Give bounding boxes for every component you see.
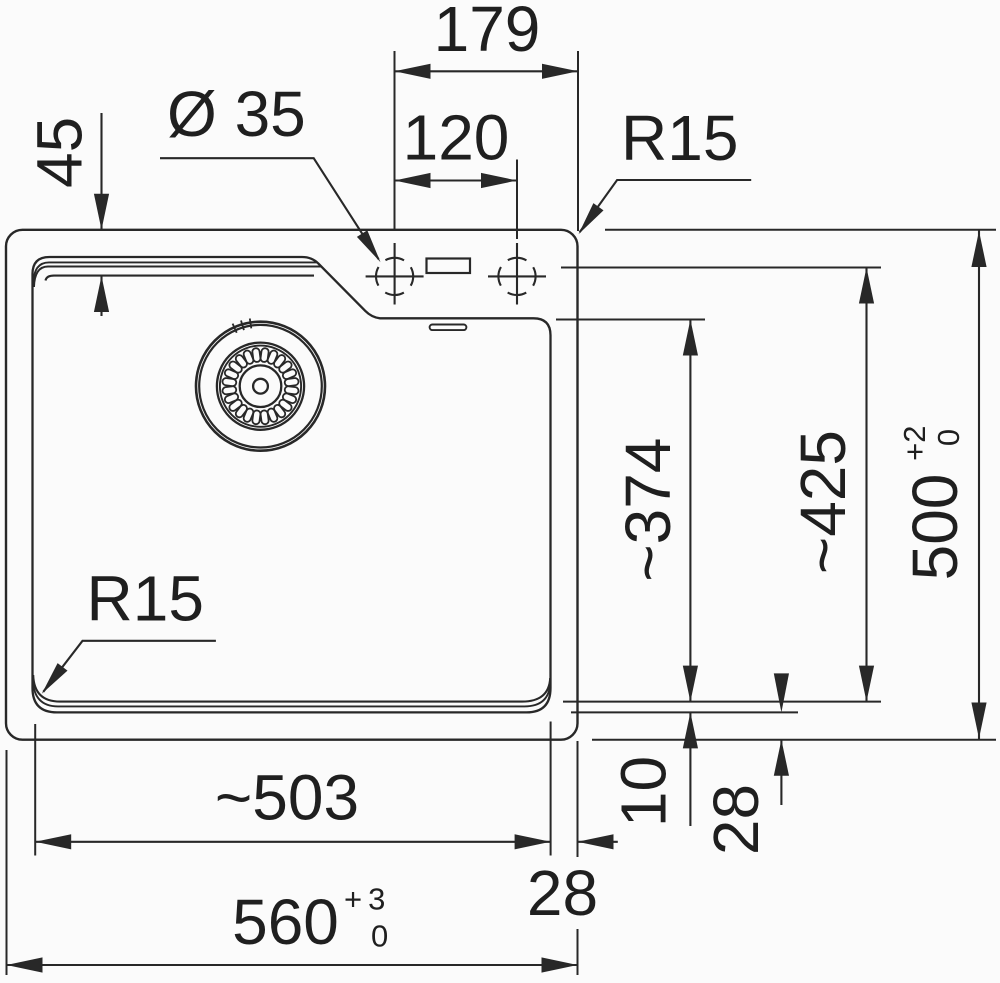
rectangular accessory hole on tap deck: [427, 259, 471, 274]
extension line bowl rim bottom right (for 10/28): [571, 711, 798, 713]
svg-text:0: 0: [931, 429, 966, 446]
svg-text:10: 10: [608, 756, 680, 827]
tap hole 2 dashed circle (d35): [498, 258, 535, 295]
drain hatch ticks: [233, 319, 252, 333]
svg-text:0: 0: [371, 919, 388, 954]
svg-text:28: 28: [700, 784, 772, 855]
svg-text:~503: ~503: [215, 761, 359, 833]
bowl rim line 3 (top): [34, 267, 321, 288]
svg-text:+3: +3: [344, 882, 391, 917]
strainer slots: [222, 348, 299, 425]
svg-text:Ø 35: Ø 35: [167, 78, 306, 150]
tap hole 2 centerline cross: [516, 243, 518, 305]
bowl rim line 2 (top): [33, 262, 317, 283]
dim 10 (right, small): [683, 712, 698, 748]
label R15 bottom left leader: [43, 641, 216, 692]
extension line deck right (for ~374): [556, 319, 705, 321]
dim ~425: [865, 268, 867, 702]
dim ~374: [689, 320, 691, 702]
sink outer edge (560x500 worktop cutout outline): [6, 230, 578, 740]
svg-text:28: 28: [527, 857, 598, 929]
extension line bowl right bottom (for ~503): [550, 722, 552, 856]
extension line sink left bottom (for 560): [6, 750, 8, 975]
svg-text:R15: R15: [87, 563, 204, 635]
svg-text:~374: ~374: [612, 438, 684, 582]
drain outer ring: [196, 322, 325, 451]
svg-text:560: 560: [232, 886, 339, 958]
extension line tap1 center: [394, 51, 396, 231]
bowl inner edge line (top): [46, 276, 315, 281]
extension line sink bottom right (for 500/28): [592, 739, 996, 741]
extension line sink right bottom (for 28/560): [577, 741, 579, 857]
extension line bowl left bottom (for ~503): [34, 724, 36, 856]
strainer knob: [240, 365, 282, 407]
label d35 leader: [160, 158, 379, 259]
svg-text:R15: R15: [621, 102, 738, 174]
label R15 top right leader: [580, 180, 752, 232]
dim 120: [395, 179, 518, 181]
bowl rim line 2 (bottom): [33, 680, 550, 706]
svg-text:45: 45: [23, 117, 95, 188]
dim 28 (bottom): [578, 834, 614, 849]
svg-text:+2: +2: [897, 426, 932, 461]
svg-text:500: 500: [899, 474, 971, 581]
extension line rim right (for ~425): [561, 267, 881, 269]
extension line tap2 center: [516, 160, 518, 240]
dim ~503: [35, 841, 550, 843]
svg-text:120: 120: [403, 102, 510, 174]
tap hole 1 centerline cross: [394, 243, 396, 305]
bowl outline with tap-deck step: [33, 257, 551, 712]
strainer ring: [217, 343, 304, 430]
bowl inner edge line (bottom): [33, 675, 550, 702]
extension line sink right edge top: [577, 51, 579, 231]
dim 500 +2/0: [978, 230, 980, 740]
extension line top edge right (for 500): [605, 229, 996, 231]
svg-text:179: 179: [434, 0, 541, 65]
overflow slot: [430, 325, 467, 331]
strainer center hole: [253, 379, 268, 394]
extension line bowl bottom right (for ~374/~425): [563, 701, 881, 703]
dim 28 (right, small): [774, 673, 789, 712]
dim 560 +3/0: [7, 964, 578, 966]
dim 45: [100, 113, 102, 229]
svg-text:~425: ~425: [787, 430, 859, 574]
tap hole 1 dashed circle (d35): [376, 258, 413, 295]
dim 179: [395, 70, 579, 72]
